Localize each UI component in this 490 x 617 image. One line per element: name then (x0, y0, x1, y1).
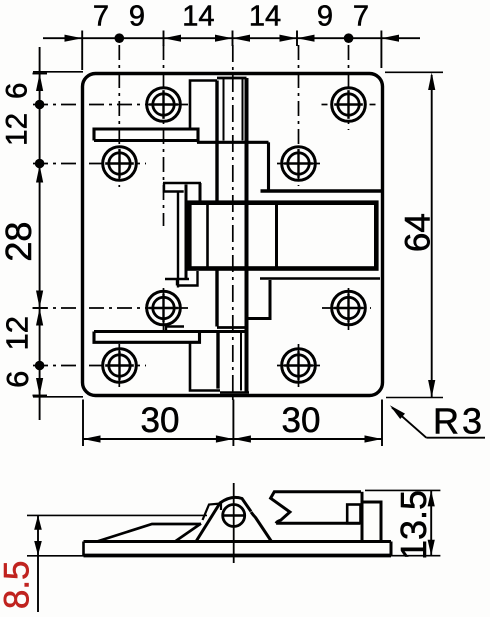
svg-text:14: 14 (182, 1, 214, 33)
centerline stubs hole A2 (322, 104, 376, 106)
centerline col2 (163, 45, 165, 330)
side view: wedge flap (97, 524, 201, 542)
svg-text:6: 6 (1, 83, 34, 99)
arm inner verticals (208, 203, 277, 269)
clamp foot (165, 271, 198, 286)
8.5 dimension (red) (27, 515, 207, 612)
centerline col4 (348, 45, 350, 330)
left lower block (190, 342, 249, 392)
hole A2 (332, 88, 366, 122)
64 label (rotated) (399, 213, 438, 252)
svg-text:7: 7 (93, 1, 109, 33)
svg-text:14: 14 (249, 1, 281, 33)
arm (thick rectangle) (189, 203, 376, 269)
centerline hinge axis (232, 45, 234, 400)
centerline row C (33, 307, 371, 309)
side view: step near hump (203, 504, 222, 521)
hole A1 (147, 88, 181, 122)
top dimension line (43, 31, 420, 71)
plate outline (top view) (83, 74, 383, 396)
centerline col3 (298, 45, 300, 390)
svg-text:13.5: 13.5 (393, 490, 434, 560)
svg-text:12: 12 (0, 316, 35, 350)
30 labels (141, 401, 321, 440)
svg-text:12: 12 (1, 113, 34, 146)
left chain arrowheads and dots (35, 74, 45, 396)
upper slot (left clamp) (163, 183, 201, 288)
svg-text:7: 7 (353, 1, 369, 33)
svg-text:64: 64 (399, 213, 438, 252)
top labels 7 9 14 14 9 7 (93, 1, 369, 33)
top chain arrowheads and dots (65, 33, 400, 43)
pin sleeve upper (217, 78, 247, 393)
hole D2 (282, 349, 316, 383)
pin sleeve lower (217, 269, 247, 391)
lower right step (246, 280, 270, 319)
side view: knuckle hump (196, 497, 272, 541)
upper flap edge lines (94, 129, 269, 191)
svg-text:8.5: 8.5 (0, 560, 37, 609)
svg-text:R3: R3 (433, 401, 485, 442)
right flap bottom edge (260, 277, 380, 280)
svg-text:28: 28 (0, 222, 39, 262)
lower slot fragment (166, 327, 184, 332)
right 64 dimension (385, 72, 443, 397)
hinge body: left upper block (190, 81, 217, 130)
left dimension line (33, 47, 84, 420)
R3 callout (392, 408, 485, 438)
centerline col1 (118, 45, 120, 388)
centerline row D (33, 365, 322, 367)
centerline row A (33, 104, 190, 106)
lower flap edge lines (94, 332, 247, 343)
centerline row B (33, 163, 322, 165)
hole B2 (282, 147, 316, 181)
hole D1 (103, 349, 137, 383)
side view: pin circle (222, 505, 246, 527)
side view: right end steps (347, 492, 381, 542)
right flap top edge (261, 189, 383, 193)
side view: base plate (84, 542, 392, 556)
side view: right leaf claw (271, 492, 361, 524)
side view: pin centerline (233, 483, 235, 563)
svg-text:6: 6 (0, 371, 35, 388)
svg-text:30: 30 (282, 401, 321, 440)
hole C1 (147, 291, 181, 325)
hole C2 (332, 291, 366, 325)
bottom dimension line 30 30 (83, 400, 382, 447)
svg-text:9: 9 (129, 1, 145, 33)
hole B1 (103, 147, 137, 181)
left labels 6 12 28 12 6 (rotated) (0, 83, 39, 388)
svg-text:9: 9 (317, 1, 333, 33)
13.5 dimension (365, 490, 440, 555)
svg-text:30: 30 (141, 401, 180, 440)
